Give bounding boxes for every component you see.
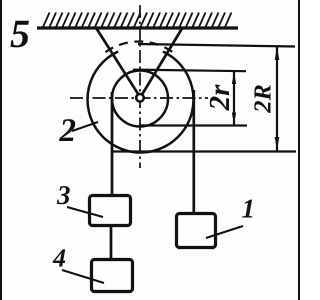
svg-text:2R: 2R xyxy=(250,84,277,114)
svg-text:1: 1 xyxy=(242,194,256,224)
svg-text:5: 5 xyxy=(10,11,30,56)
svg-text:4: 4 xyxy=(52,244,66,273)
svg-text:2: 2 xyxy=(59,113,77,149)
svg-text:2r: 2r xyxy=(204,84,236,112)
svg-text:3: 3 xyxy=(56,180,71,210)
